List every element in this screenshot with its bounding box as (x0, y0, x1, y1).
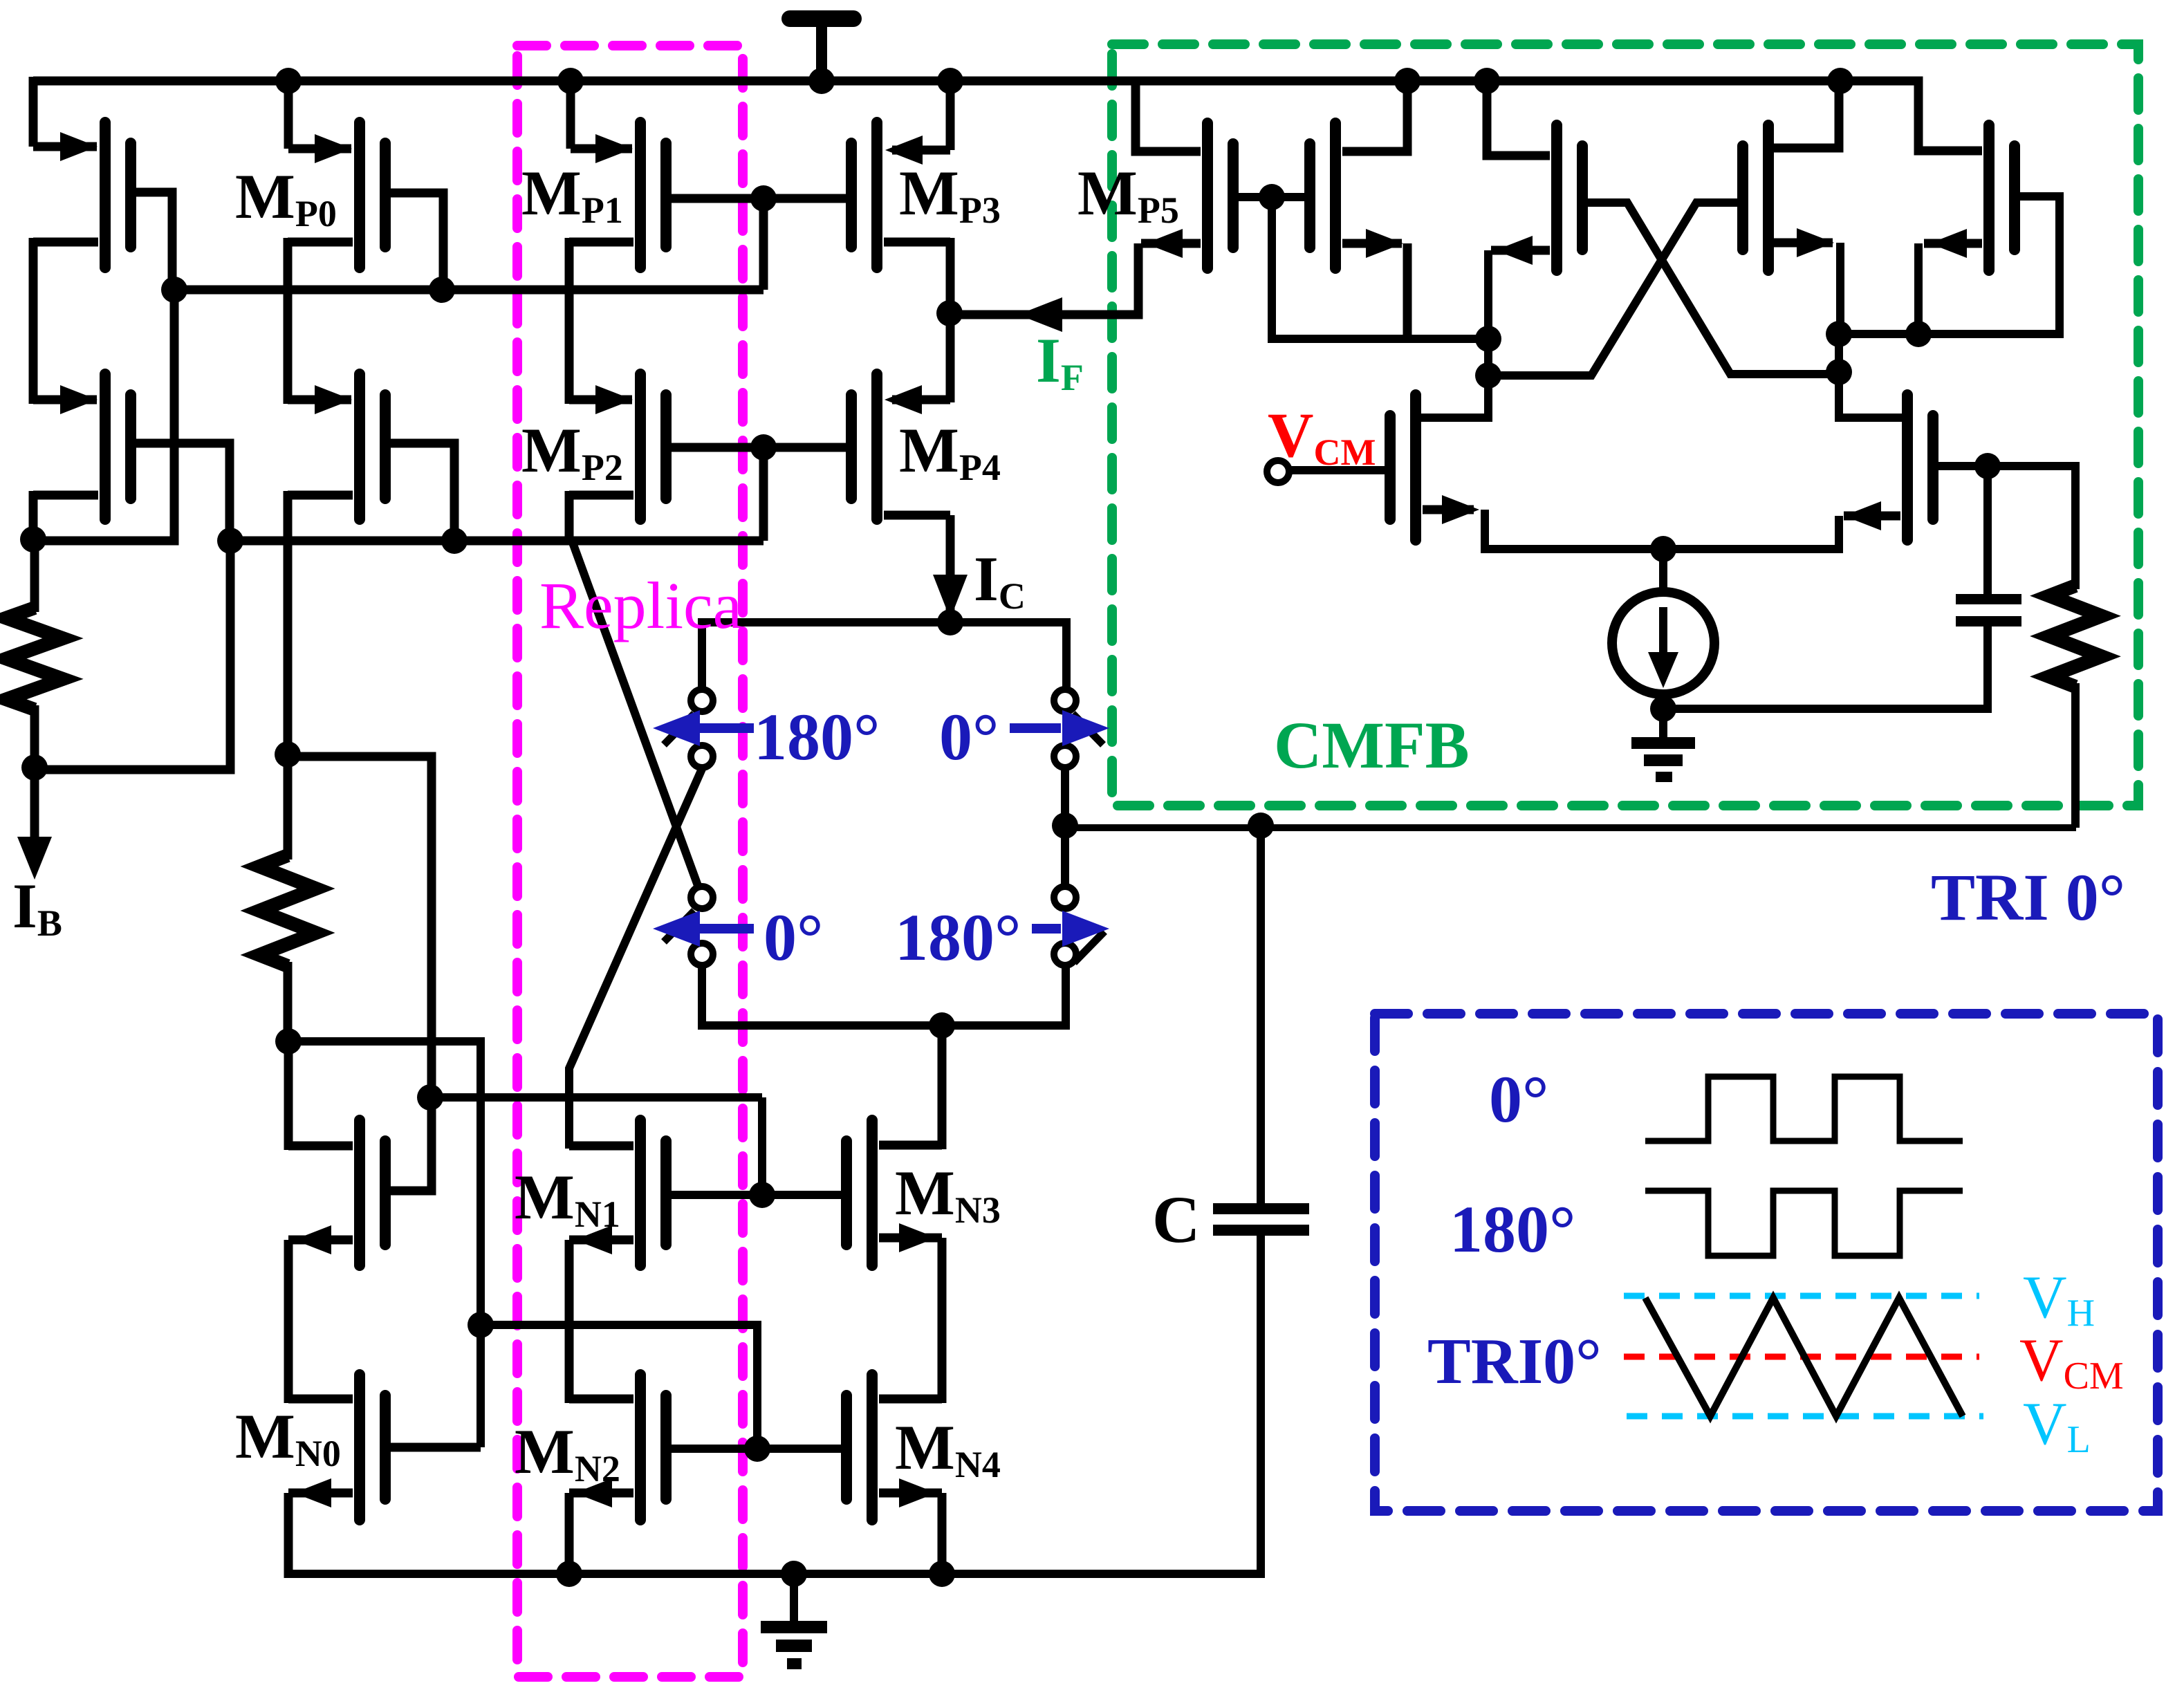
ground symbol (main) (790, 1574, 798, 1625)
svg-text:0°: 0° (1489, 1062, 1548, 1136)
wire MN2 source to ground rail (565, 1493, 574, 1574)
wire MN3 drain riser to switch box (938, 1025, 947, 1149)
arrow 0deg top-right (blue) (1010, 723, 1061, 733)
wire MP3 drain to IF node (946, 238, 955, 317)
wire ground rail (288, 1570, 1265, 1578)
arrow IC current marker (933, 575, 968, 619)
wire cross-left drain bus (1484, 250, 1492, 422)
wire pbias1 to diode node riser (33, 290, 174, 541)
node R1 bottom dot (21, 754, 48, 781)
dashed VH level line (cyan) (1624, 1293, 1979, 1299)
transistor left diode PMOS top (bias) (100, 122, 111, 268)
transistor cmfb diode PMOS (1330, 123, 1341, 268)
node cross-left dots (1475, 326, 1501, 352)
wire tail line (1485, 545, 1839, 553)
wire switch box right mid (TRI node) (1061, 768, 1069, 886)
wire MP2/MP4 gate line (663, 443, 854, 452)
wire cross-right gate diagonal (1488, 203, 1743, 375)
wire MN3 source to MN4 drain (938, 1238, 947, 1403)
VDD top rail wire (33, 77, 1843, 86)
VDD symbol (790, 10, 853, 27)
switch S1 left terminals (691, 689, 713, 712)
wire TRI 0deg output line (1065, 824, 2076, 831)
wire R1-bottom to pbias2 riser (35, 541, 230, 770)
svg-text:180°: 180° (754, 700, 880, 774)
dashed VL level line (cyan) (1627, 1413, 1983, 1420)
wire cross-right drain drop (1836, 243, 1844, 338)
wire MP6 drain drop (1914, 243, 1923, 338)
transistor MP5 (1202, 123, 1213, 268)
wire R2-bottom to cascode NMOS drain (284, 1041, 293, 1150)
transistor MP2 (635, 374, 646, 519)
wire replica output diagonal to switch (crossing) (572, 541, 702, 897)
svg-text:180°: 180° (895, 900, 1021, 974)
wire MN0 source to ground rail (284, 1493, 293, 1578)
wire left cascode link (29, 238, 38, 404)
transistor MP3 (871, 122, 882, 268)
wire diff-left source drop (1481, 510, 1489, 553)
triangle wave TRI0 (1645, 1298, 1963, 1416)
node ncasc dot (417, 1084, 443, 1111)
node VDD rail junction dots (275, 68, 302, 94)
current source I1 (1659, 549, 1667, 593)
wire pbias1 riser to MP1/MP3 gates (759, 198, 768, 290)
transistor MP0 (354, 122, 365, 268)
transistor MN1 (635, 1120, 646, 1265)
node tail dot (1650, 536, 1676, 562)
wire R3 bottom to TRI line (2071, 683, 2080, 828)
arrow 180deg top-left (blue) (698, 723, 754, 733)
node cmfb diode gate dot (1259, 184, 1285, 210)
wire switch box left upper (698, 618, 706, 689)
node current source bottom dot (1650, 696, 1676, 722)
node diff-right gate dot (1974, 453, 2001, 479)
wire pbias2 line (lower PMOS gates) (230, 537, 764, 546)
node pbias1 dots (161, 277, 187, 303)
node nbias2 branch dot (468, 1312, 494, 1338)
transistor left diode PMOS bottom (bias) (100, 374, 111, 519)
wire MN4 source to ground rail (938, 1493, 947, 1578)
capacitor C plates (1213, 1203, 1309, 1214)
wire diff-right source drop (1835, 516, 1843, 553)
wire R2-bottom to MN gates riser (289, 1041, 481, 1447)
transistor MP4 (871, 374, 882, 519)
wire ncasc gate line (430, 1093, 762, 1102)
transistor cmfb diff right NMOS (1902, 395, 1913, 540)
square wave 180deg (1645, 1191, 1963, 1256)
node TRI dots (1248, 813, 1274, 839)
wire MP4 drain (IC) to switch box (946, 515, 955, 622)
transistor MN2 (635, 1375, 646, 1520)
wire C2 bottom to tail ground (1663, 626, 1988, 709)
wire cross-left drain to diff drain (1416, 414, 1488, 422)
wire MN2/MN4 gate line (663, 1445, 851, 1453)
svg-text:C: C (1152, 1182, 1200, 1256)
transistor MN0 (354, 1375, 365, 1520)
wire MP6 gate (2012, 196, 2060, 338)
node MP2-MP4 gate dot (750, 434, 777, 461)
wire cascode source to MN0 drain (284, 1240, 293, 1403)
waveform legend dashed box (blue) (1375, 1014, 2158, 1511)
resistor R1 (bias) (6, 608, 63, 709)
switch S3 right terminals (1054, 689, 1076, 712)
wire switch box top (702, 618, 1068, 626)
wire IB output with arrow (30, 768, 39, 845)
node IB-top dot (20, 526, 46, 553)
wire switch box right upper (1062, 618, 1071, 689)
wire MP1/MP3 gate line (663, 194, 854, 203)
dashed VCM level line (red) (1624, 1354, 1979, 1360)
capacitor C2 plates (1956, 594, 2021, 604)
arrow IF current marker (1018, 297, 1062, 332)
transistor cmfb cross PMOS left (1551, 125, 1562, 270)
wire MP5 drain to IF (1134, 243, 1138, 315)
wire cross-right to diff drain (1839, 334, 1907, 418)
node cross-right dots (1826, 321, 1852, 347)
svg-text:TRI 0°: TRI 0° (1931, 860, 2125, 934)
node IF dot (936, 300, 963, 326)
node MN1/MN3 gate dot (749, 1182, 775, 1208)
wire left drain to IB node (29, 491, 38, 544)
svg-text:TRI0°: TRI0° (1427, 1326, 1602, 1398)
wire nbias2 to MN2/MN4 gates (481, 1325, 757, 1449)
switch S4 blade (1074, 931, 1104, 963)
switch S4 right terminals (1054, 886, 1076, 909)
wire cross-right node bus (H2) (1839, 330, 2060, 338)
svg-text:Replica: Replica (539, 568, 742, 642)
node nbias-top dot (275, 741, 301, 768)
wire pbias2 riser to MP2/MP4 gates (759, 447, 768, 541)
node IC entry dot (937, 609, 963, 635)
resistor R2 (nmos bias) (259, 855, 316, 966)
square wave 0deg (1645, 1077, 1963, 1141)
wire R3 top from gate node (1988, 466, 2075, 589)
switch S2 blade (664, 911, 694, 942)
wire IF from CMFB (MP5 drain) (950, 310, 1138, 319)
wire VDD to left diode PMOS source (29, 77, 38, 147)
transistor MP1 (635, 122, 646, 268)
node MP1-MP3 gate dot (750, 185, 777, 212)
input VCM terminal (1267, 461, 1289, 483)
switch S2 left terminals (691, 886, 713, 909)
transistor MP6 output mirror (rightmost) (1983, 125, 1995, 270)
wire MN1/MN3 gate line (663, 1191, 851, 1199)
node ground rail dots (556, 1561, 582, 1587)
node TRI tap dot (1052, 813, 1078, 839)
node MN2/MN4 gate dot (744, 1436, 770, 1462)
arrow 0deg bottom-left (blue) (698, 924, 754, 934)
arrow 180deg bottom-right (blue) (1032, 924, 1061, 934)
wire switch box right lower (1062, 965, 1070, 1030)
svg-text:CMFB: CMFB (1274, 708, 1470, 782)
wire ncasc to MN1/MN3 gates riser (758, 1097, 766, 1195)
node R2 bottom dot (275, 1028, 302, 1055)
switch S1 blade (664, 714, 694, 745)
wire MP0 cascode link (284, 238, 293, 404)
wire MP0-column drain drop to nbias node (284, 491, 293, 754)
transistor cmfb diff left NMOS (1410, 395, 1421, 540)
node pbias2 dots (217, 528, 243, 554)
wire diff-right gate line (1930, 462, 2075, 470)
wire cmfb diode drain drop (1403, 243, 1412, 343)
svg-text:0°: 0° (764, 900, 823, 974)
transistor MN4 (867, 1375, 878, 1520)
wire S1 to crossing diagonal (to MN1 drain) (569, 769, 702, 1149)
switch S3 blade (1073, 714, 1103, 745)
wire switch box left lower (698, 965, 706, 1030)
wire diode gate to drain (H1) (1272, 197, 1488, 339)
wire MP1 cascode link (565, 238, 574, 404)
wire nbias-top to cascode-gate riser (288, 756, 432, 1191)
wire MN1 source to MN2 drain (565, 1240, 574, 1403)
wire capacitor C top (1257, 828, 1265, 1205)
wire MP2 drain to pbias2 (565, 491, 574, 545)
resistor R3 (2049, 586, 2102, 687)
wire MP5/diode gate line (1230, 193, 1313, 201)
transistor NMOS cascode (above MN0) (354, 1120, 365, 1265)
svg-text:180°: 180° (1450, 1192, 1575, 1266)
wire compensation branch from gate node (1983, 466, 1992, 599)
wire cross-left gate diagonal (1580, 203, 1839, 374)
svg-text:0°: 0° (939, 700, 999, 774)
wire switch box bottom (702, 1021, 1068, 1030)
wire capacitor C bottom to ground rail (288, 1236, 1261, 1574)
Replica dashed box (magenta) (517, 46, 743, 1677)
ground symbol (CMFB) (1659, 709, 1667, 741)
transistor MN3 (867, 1120, 878, 1265)
transistor MP0 cascode (lower) (354, 374, 365, 519)
transistor cmfb cross PMOS right (1763, 125, 1774, 270)
wire pbias1 line (top PMOS gates) (174, 286, 764, 295)
node MN3 drain tap dot (929, 1012, 955, 1039)
CMFB dashed box (green) (1112, 44, 2138, 806)
